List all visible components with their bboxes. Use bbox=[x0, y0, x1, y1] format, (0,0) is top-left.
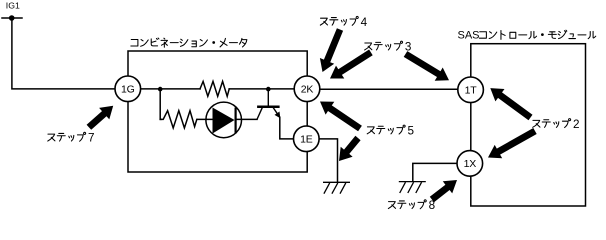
terminal 1X bbox=[457, 151, 483, 177]
terminal 1G bbox=[115, 76, 141, 102]
step3 arrow to 2K bbox=[330, 50, 373, 79]
svg-text:1G: 1G bbox=[121, 84, 135, 96]
svg-text:2: 2 bbox=[573, 118, 580, 131]
wire R1 to junction B to 2K bbox=[229, 88, 294, 90]
svg-text:7: 7 bbox=[88, 132, 95, 145]
combination meter box bbox=[128, 51, 307, 172]
svg-text:4: 4 bbox=[361, 16, 368, 29]
wire 2K to 1T bbox=[320, 88, 458, 90]
transistor Q1 bbox=[257, 89, 294, 139]
label step 5 bbox=[367, 127, 374, 134]
terminal 1T bbox=[458, 77, 484, 103]
node IG1 terminal tick bbox=[2, 17, 22, 19]
svg-text:1X: 1X bbox=[464, 158, 477, 170]
transistor emitter arrowhead bbox=[274, 109, 280, 118]
indicator lamp / LED D1 bbox=[206, 102, 242, 138]
wire LED D1 to transistor base bbox=[236, 118, 257, 120]
ground G2 (left of 1X) bbox=[399, 182, 426, 193]
svg-text:2K: 2K bbox=[301, 84, 314, 96]
svg-text:1E: 1E bbox=[300, 134, 313, 146]
label step 8 bbox=[388, 202, 395, 209]
svg-text:IG1: IG1 bbox=[6, 1, 20, 11]
SAS module box bbox=[471, 44, 586, 206]
svg-text:5: 5 bbox=[408, 125, 415, 138]
label step 4 bbox=[320, 18, 327, 25]
svg-text:3: 3 bbox=[405, 41, 412, 54]
node IG1 dot bbox=[9, 15, 15, 21]
wire 1X left to ground bbox=[413, 163, 457, 181]
step8 arrow to 1X bbox=[430, 180, 457, 202]
junction node B bbox=[266, 87, 271, 92]
label step 3 bbox=[365, 43, 372, 50]
wire IG1 down and right to 1G bbox=[12, 18, 115, 89]
step4 arrow to 2K bbox=[320, 28, 343, 72]
resistor R1 (top) bbox=[200, 81, 229, 96]
step2 arrow to 1X bbox=[488, 128, 537, 158]
ground G1 (below 1E wire) bbox=[323, 182, 350, 193]
junction node A bbox=[158, 87, 163, 92]
step5 arrow to 2K bbox=[320, 102, 362, 132]
terminal 2K bbox=[294, 76, 320, 102]
wire junction A down to lower branch bbox=[159, 89, 162, 120]
svg-text:1T: 1T bbox=[465, 85, 478, 97]
svg-text:8: 8 bbox=[429, 199, 436, 212]
step7 arrow to 1G bbox=[87, 106, 114, 130]
wire 1E right to ground bbox=[319, 139, 337, 182]
step3 arrow to 1T bbox=[404, 51, 449, 81]
wire R2 to LED D1 bbox=[198, 118, 213, 120]
terminal 1E bbox=[294, 126, 320, 152]
step5 arrow to ground wire bbox=[339, 136, 361, 161]
resistor R2 (lower branch) bbox=[160, 111, 197, 128]
label step 7 bbox=[48, 134, 55, 141]
step2 arrow to 1T bbox=[490, 88, 532, 120]
label step 2 bbox=[533, 120, 540, 127]
label combination meter (katakana) bbox=[131, 40, 138, 46]
wire 1G to junction A bbox=[141, 88, 200, 90]
svg-text:SAS: SAS bbox=[458, 30, 480, 42]
